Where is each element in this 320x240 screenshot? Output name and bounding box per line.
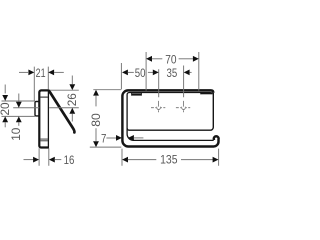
front view right mounting tab [201, 92, 213, 94]
svg-text:70: 70 [165, 54, 176, 67]
svg-text:21: 21 [36, 67, 46, 81]
front view outer band (thick) with right hook [122, 90, 218, 146]
side view plate outline (thick) [39, 90, 49, 147]
svg-text:35: 35 [167, 67, 178, 80]
dimension 35 (front view second row) [184, 70, 192, 76]
side view plate right edge [47, 90, 49, 147]
dimension 26 (right of side view) [69, 76, 75, 122]
svg-text:16: 16 [64, 154, 75, 167]
svg-text:80: 80 [89, 113, 103, 127]
hole symbol right [176, 101, 190, 112]
side view inner fold line top [40, 96, 48, 98]
dimension 135 (front view bottom) [122, 157, 218, 163]
side view inner fold lines bottom [40, 139, 48, 141]
front view left mounting tab [132, 93, 142, 96]
svg-text:20: 20 [0, 102, 12, 115]
dimension 16 (side view bottom) [24, 157, 62, 163]
svg-text:10: 10 [9, 127, 23, 140]
dimension 7 (bar width) [106, 135, 143, 141]
svg-text:135: 135 [160, 154, 177, 167]
dimension 21 (side view depth) [19, 70, 64, 76]
svg-text:26: 26 [65, 93, 79, 106]
hole symbol left [151, 101, 165, 112]
dimension 70 (front view top row) [146, 56, 199, 62]
dimension 20 (left column) [2, 85, 8, 128]
front view plate right and bottom edge [127, 93, 213, 130]
extension lines front view [90, 52, 219, 166]
dimension 10 (left column) [16, 94, 22, 126]
front view inner band line and bar top edge [127, 93, 214, 141]
side view wall bracket bump [35, 102, 39, 116]
svg-text:7: 7 [101, 132, 106, 145]
side view diagonal arm [49, 91, 74, 132]
svg-text:50: 50 [135, 67, 146, 80]
dimension 50 (front view second row) [122, 70, 159, 76]
extension lines side view [2, 67, 79, 166]
dimension 80 (height) [93, 90, 99, 147]
